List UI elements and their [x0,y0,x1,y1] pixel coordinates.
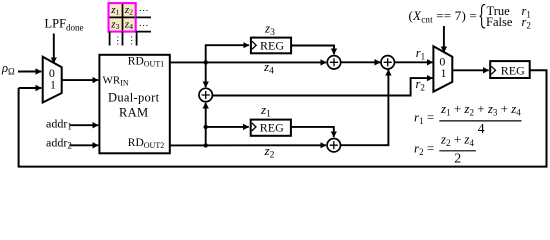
svg-text:1: 1 [441,66,447,80]
table continuation lines below [110,32,137,46]
register REG1 (z3) [251,38,291,54]
adder A1 [327,56,340,69]
wire mux1 to WRIN [62,79,98,81]
memory table internal black grid lines [109,3,136,32]
svg-text:2: 2 [454,151,461,166]
svg-text:r2 =: r2 = [414,141,434,158]
wire RDOUT1 z4 to adder A1 [170,61,326,63]
svg-text:z2 + z4: z2 + z4 [440,132,474,149]
table continuation lines right [136,17,151,31]
mux M1 left [43,57,62,103]
register REG3 (output) [490,61,530,78]
svg-text:REG: REG [501,63,525,77]
svg-text:r2: r2 [416,77,425,93]
wire J3 up to adder A4 bottom [205,103,207,146]
memory table cell fill [109,3,136,32]
svg-text:⋮: ⋮ [113,36,123,47]
svg-text:r1 =: r1 = [414,110,434,127]
svg-text:RAM: RAM [119,106,148,120]
wire J1 up to REG1 input [206,45,249,62]
wire J2 to REG2 input [206,126,249,128]
svg-text:False: False [486,15,513,29]
wire REG1 out to adder A1 top [291,46,334,55]
formula r2 fraction bar [439,150,476,152]
svg-text:Dual-port: Dual-port [108,91,160,105]
dual-port RAM box [99,55,169,154]
node J3 on z2 wire [204,143,208,147]
svg-text:REG: REG [260,39,284,53]
adder A3 [327,139,340,152]
svg-text:addr1: addr1 [46,117,72,132]
wire mux M2 to REG3 [452,69,488,71]
svg-text:z1 + z2 + z3 + z4: z1 + z2 + z3 + z4 [440,101,521,118]
svg-text:LPFdone: LPFdone [45,17,84,33]
svg-text:z1: z1 [260,102,271,120]
wire Xcnt select to mux M2 [443,26,445,52]
svg-text:⋮: ⋮ [127,36,137,47]
wire RDOUT2 z2 to adder A3 [170,144,326,146]
wire addr2 [70,144,99,146]
svg-text:1: 1 [50,77,56,91]
wire LPFdone select [53,34,55,64]
wire J1 down to adder A4 top [205,62,207,87]
svg-text:z3: z3 [264,21,275,39]
wire A4 out to mux M2 input 1 [212,78,432,95]
formula r1 fraction bar [439,120,521,122]
wire feedback to mux1 [19,87,42,89]
mux M2 right [433,46,452,91]
memory table magenta border [109,3,136,32]
wire rho to mux0 [18,71,41,73]
svg-text:ρΩ: ρΩ [1,61,15,76]
svg-text:(Xcnt == 7) =: (Xcnt == 7) = [409,8,477,25]
wire feedback loop [19,70,547,166]
brace [480,4,486,28]
svg-text:r1: r1 [416,46,425,62]
wire A3 out up to A2 bottom [341,70,389,145]
node J2 on vertical (REG2 branch) [204,125,208,129]
node J1 on z4 wire [204,60,208,64]
register REG2 (z1) [251,120,291,136]
wire A2 to mux M2 input 0 [394,61,432,63]
wire REG2 out to adder A3 top [291,127,334,137]
svg-text:⋯: ⋯ [139,21,149,32]
svg-text:⋯: ⋯ [139,6,149,17]
wire addr1 [70,124,99,126]
wire A1 to A2 [341,61,381,63]
svg-text:REG: REG [260,121,284,135]
svg-text:addr2: addr2 [46,136,72,151]
adder A4 (r2 sum) [199,88,212,101]
svg-text:4: 4 [478,122,485,137]
adder A2 [381,56,394,69]
